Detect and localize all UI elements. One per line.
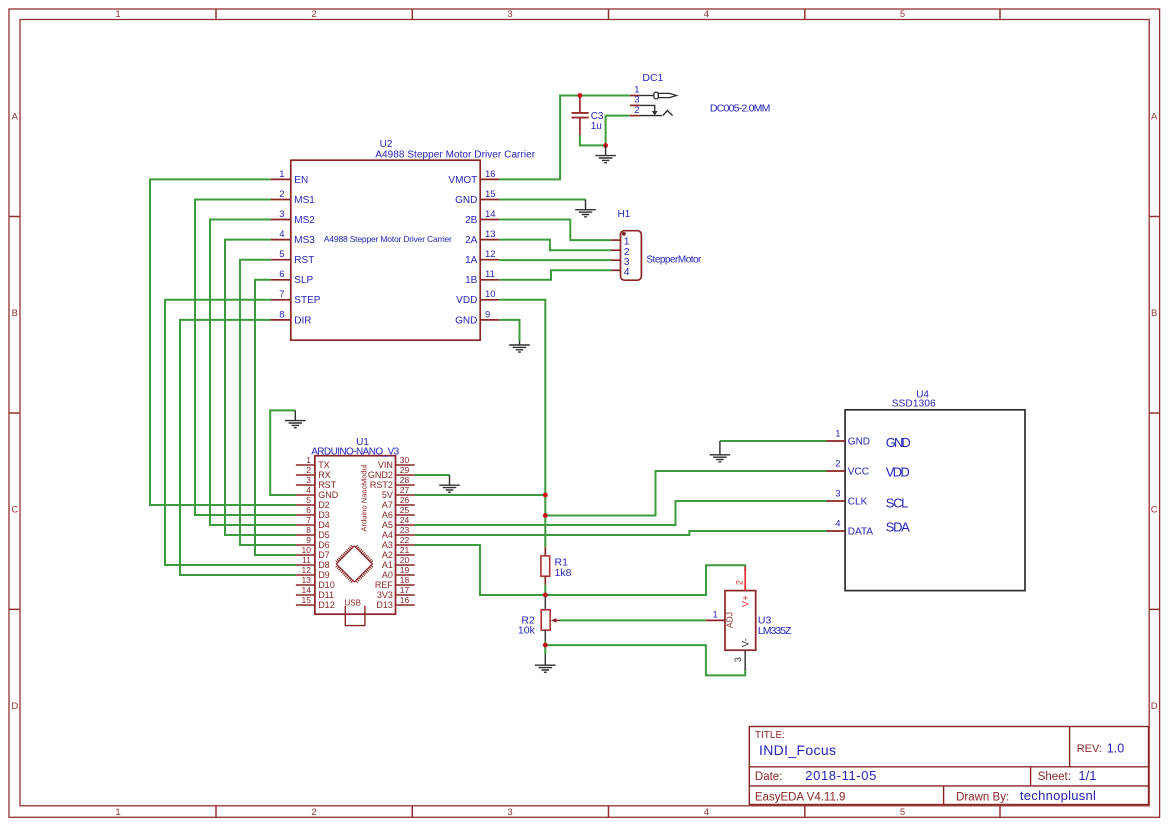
U2 pin 1 EN [271, 169, 308, 186]
U2 pin 14 2B [465, 209, 499, 226]
U1 pin 9 D6 [296, 535, 330, 550]
svg-text:Date:: Date: [755, 771, 783, 783]
svg-text:2018-11-05: 2018-11-05 [805, 768, 876, 783]
svg-text:SDA: SDA [886, 520, 910, 535]
U2 pin 15 GND [455, 189, 499, 206]
svg-text:4: 4 [306, 485, 311, 495]
display U4 SSD1306 box [845, 410, 1025, 591]
svg-text:3: 3 [306, 475, 311, 485]
U1 pin 24 A5 [382, 515, 415, 530]
svg-text:VCC: VCC [848, 467, 869, 478]
svg-text:GND2: GND2 [368, 470, 393, 480]
wire A4 to U4 DATA [415, 531, 827, 535]
svg-text:INDI_Focus: INDI_Focus [759, 742, 836, 758]
svg-text:Drawn By:: Drawn By: [956, 791, 1009, 803]
ground at U2 GND15 [575, 200, 596, 217]
svg-text:5V: 5V [382, 490, 393, 500]
svg-text:30: 30 [400, 455, 410, 465]
svg-text:9: 9 [485, 309, 490, 320]
U1 pin 8 D5 [296, 525, 330, 540]
U1 pin 17 3V3 [377, 585, 415, 600]
wire 2A to H1 pin2 [499, 240, 611, 251]
title block [749, 727, 1148, 805]
svg-text:2: 2 [311, 9, 316, 20]
svg-text:2: 2 [306, 465, 311, 475]
svg-text:D8: D8 [318, 560, 330, 570]
svg-text:16: 16 [400, 595, 410, 605]
wire node to U3 V- [545, 645, 745, 675]
wire VDD 5V net [499, 300, 545, 547]
wire U1 GND to ground [270, 410, 296, 495]
U2 pin 2 MS1 [271, 189, 315, 206]
wire SLP to D7 [255, 280, 296, 555]
svg-text:H1: H1 [618, 209, 631, 220]
svg-text:5: 5 [306, 495, 311, 505]
U2 pin 10 VDD [456, 289, 499, 306]
svg-text:A4: A4 [382, 530, 393, 540]
svg-text:D4: D4 [318, 520, 330, 530]
wire MS1 to D3 [195, 200, 296, 516]
U1 pin 5 D2 [296, 495, 330, 510]
svg-text:11: 11 [302, 555, 311, 565]
wire DC1 pin2 to C3 node [606, 116, 630, 146]
U1 USB connector [345, 606, 365, 626]
wire C3 bottom to node [580, 135, 606, 145]
resistor R1 [541, 547, 550, 584]
svg-text:C: C [11, 505, 18, 516]
svg-text:RST: RST [294, 255, 314, 266]
svg-text:4: 4 [704, 807, 709, 818]
svg-text:24: 24 [400, 515, 410, 525]
U1 pin 3 RST [296, 475, 337, 490]
svg-text:3: 3 [279, 209, 284, 220]
svg-text:RST2: RST2 [370, 480, 393, 490]
wire MS3 to D5 [225, 240, 296, 535]
IC U2 A4988 box [291, 160, 480, 340]
svg-text:ARDUINO-NANO_V3: ARDUINO-NANO_V3 [311, 446, 399, 457]
svg-text:5: 5 [279, 249, 284, 260]
svg-text:A6: A6 [382, 510, 393, 520]
svg-text:V-: V- [740, 638, 751, 647]
svg-text:13: 13 [302, 575, 312, 585]
U3 pin 2 V+ [735, 567, 752, 608]
svg-text:A4988 Stepper Motor Driver Car: A4988 Stepper Motor Driver Carrier [375, 150, 535, 161]
U1 pin 16 D13 [376, 595, 414, 610]
svg-text:VIN: VIN [378, 460, 393, 470]
svg-text:MS3: MS3 [294, 235, 315, 246]
svg-text:VDD: VDD [886, 464, 910, 479]
svg-text:26: 26 [400, 495, 410, 505]
svg-text:ADJ: ADJ [725, 612, 735, 628]
svg-text:27: 27 [400, 485, 410, 495]
svg-text:1B: 1B [465, 275, 478, 286]
svg-text:A4988 Stepper Motor Driver Car: A4988 Stepper Motor Driver Carrier [324, 234, 452, 244]
svg-text:19: 19 [400, 565, 410, 575]
U4 pin 1 GND [827, 429, 871, 448]
U1 pin 23 A4 [382, 525, 415, 540]
wire R1 bottom to node [544, 584, 546, 595]
junction VCC branch [543, 513, 548, 518]
svg-text:EN: EN [294, 175, 308, 186]
wire VMOT to DC1 pin1 [499, 96, 630, 180]
svg-text:2A: 2A [465, 235, 478, 246]
svg-text:1u: 1u [591, 121, 602, 132]
svg-text:U2: U2 [380, 139, 393, 150]
svg-text:13: 13 [485, 229, 496, 240]
svg-text:10: 10 [485, 289, 496, 300]
U1 pin 25 A6 [382, 505, 415, 520]
svg-text:A1: A1 [382, 560, 393, 570]
svg-text:D12: D12 [318, 600, 335, 610]
svg-text:28: 28 [400, 475, 410, 485]
H1 pin 2 [611, 246, 630, 258]
svg-text:VMOT: VMOT [448, 175, 477, 186]
U1 pin 18 REF [375, 575, 415, 590]
svg-text:1A: 1A [465, 255, 478, 266]
svg-text:Sheet:: Sheet: [1038, 771, 1071, 783]
svg-text:D2: D2 [318, 500, 330, 510]
svg-text:6: 6 [279, 269, 284, 280]
wire 1A to H1 pin3 [499, 259, 611, 261]
svg-text:12: 12 [485, 249, 496, 260]
svg-text:15: 15 [485, 189, 496, 200]
U1 pin 20 A1 [382, 555, 415, 570]
wire U1 GND2 to ground [415, 474, 450, 476]
connector H1 box [621, 231, 642, 281]
capacitor C3 [572, 97, 589, 135]
ground at C3/DC1 [595, 145, 616, 162]
wire node to U4 VCC [545, 471, 826, 516]
svg-text:14: 14 [485, 209, 496, 220]
U1 pin 11 D8 [296, 555, 330, 570]
svg-text:10: 10 [302, 545, 312, 555]
svg-text:DIR: DIR [294, 315, 311, 326]
U1 pin 27 5V [382, 485, 415, 500]
U1 pin 13 D10 [296, 575, 335, 590]
svg-text:D6: D6 [318, 540, 330, 550]
svg-text:REF: REF [375, 580, 394, 590]
svg-text:18: 18 [400, 575, 410, 585]
svg-text:GND: GND [886, 435, 911, 450]
svg-text:23: 23 [400, 525, 410, 535]
svg-text:A: A [12, 112, 19, 123]
svg-text:A7: A7 [382, 500, 393, 510]
DC1 pin 3 [630, 95, 658, 116]
svg-text:3: 3 [507, 9, 512, 20]
svg-text:29: 29 [400, 465, 410, 475]
svg-text:12: 12 [302, 565, 312, 575]
U1 pin 26 A7 [382, 495, 415, 510]
svg-text:9: 9 [306, 535, 311, 545]
svg-text:4: 4 [835, 519, 840, 530]
wire RST to D6 [240, 260, 296, 545]
U4 pin 4 DATA [827, 519, 874, 538]
svg-text:8: 8 [279, 309, 284, 320]
U1 chip diamond [336, 545, 373, 582]
svg-text:1: 1 [279, 169, 284, 180]
svg-text:7: 7 [306, 515, 311, 525]
svg-text:1: 1 [115, 9, 120, 20]
svg-text:20: 20 [400, 555, 410, 565]
wire A5 to U4 CLK [415, 501, 827, 525]
U2 pin 11 1B [465, 269, 499, 286]
svg-text:1: 1 [835, 429, 840, 440]
svg-text:3: 3 [733, 657, 743, 662]
U1 pin 22 A3 [382, 535, 415, 550]
svg-text:A2: A2 [382, 550, 393, 560]
svg-text:1.0: 1.0 [1107, 742, 1124, 756]
ground at U1 GND [285, 410, 306, 427]
svg-text:10k: 10k [518, 624, 536, 636]
svg-text:14: 14 [302, 585, 312, 595]
svg-text:A: A [1151, 112, 1158, 123]
U2 pin 7 STEP [271, 289, 321, 306]
U2 pin 3 MS2 [271, 209, 315, 226]
U1 pin 19 A0 [382, 565, 415, 580]
svg-text:2: 2 [279, 189, 284, 200]
U1 pin 1 TX [296, 455, 330, 470]
svg-text:USB: USB [345, 598, 361, 607]
svg-text:RX: RX [318, 470, 331, 480]
junction R2 bottom [543, 643, 548, 648]
U1 pin 10 D7 [296, 545, 330, 560]
svg-text:17: 17 [400, 585, 410, 595]
ground at U1 GND2 [439, 475, 460, 492]
svg-text:3: 3 [634, 95, 639, 106]
svg-text:GND: GND [455, 315, 477, 326]
svg-text:A5: A5 [382, 520, 393, 530]
svg-text:1: 1 [306, 455, 311, 465]
svg-text:1: 1 [713, 610, 718, 621]
H1 pin 4 [611, 266, 630, 278]
svg-text:3V3: 3V3 [377, 590, 393, 600]
svg-text:DATA: DATA [848, 527, 874, 538]
wire U2 GND15 to ground [499, 199, 585, 201]
svg-text:1k8: 1k8 [555, 567, 572, 579]
U1 pin 29 GND2 [368, 465, 415, 480]
svg-text:7: 7 [279, 289, 284, 300]
DC1 pin 2 [630, 105, 673, 116]
U2 pin 8 DIR [271, 309, 312, 326]
svg-text:D9: D9 [318, 570, 330, 580]
wire 1B to H1 pin4 [499, 270, 611, 280]
U1 pin 6 D3 [296, 505, 330, 520]
ground at U4 GND [710, 441, 731, 462]
svg-text:MS2: MS2 [294, 215, 315, 226]
H1 pin 3 [611, 256, 630, 268]
wire A3 to R1 and U3 V+ [415, 545, 746, 595]
U4 pin 3 CLK [827, 489, 868, 508]
svg-text:B: B [1151, 308, 1157, 319]
wire STEP to D8 [165, 300, 296, 565]
svg-text:D11: D11 [318, 590, 334, 600]
H1 pin1 marker dot [622, 232, 626, 236]
U1 pin 2 RX [296, 465, 331, 480]
ground at R2 bottom [535, 655, 556, 673]
wire R2 bottom node [544, 641, 546, 655]
svg-text:D10: D10 [318, 580, 335, 590]
wire R2 wiper to U3 ADJ [559, 619, 706, 621]
svg-text:16: 16 [485, 169, 496, 180]
wire MS2 to D4 [210, 220, 296, 526]
svg-text:2: 2 [311, 807, 316, 818]
svg-text:MS1: MS1 [294, 195, 315, 206]
svg-text:CLK: CLK [848, 497, 868, 508]
U1 pin 21 A2 [382, 545, 415, 560]
svg-text:StepperMotor: StepperMotor [646, 255, 702, 266]
svg-text:DC005-2.0MM: DC005-2.0MM [710, 103, 771, 115]
svg-text:11: 11 [485, 269, 495, 280]
junction 5V U1 [543, 493, 548, 498]
DC1 pin 1 [630, 84, 677, 98]
svg-text:1: 1 [115, 807, 120, 818]
U1 pin 7 D4 [296, 515, 330, 530]
svg-text:Arduino NanoModul: Arduino NanoModul [359, 464, 368, 531]
svg-text:SLP: SLP [294, 275, 313, 286]
svg-text:2: 2 [634, 105, 639, 116]
wire U4 GND1 [720, 440, 827, 442]
svg-text:2B: 2B [465, 215, 478, 226]
svg-text:GND: GND [848, 437, 870, 448]
svg-text:D: D [1151, 701, 1158, 712]
U1 pin 12 D9 [296, 565, 330, 580]
svg-text:DC1: DC1 [642, 72, 663, 84]
svg-text:8: 8 [306, 525, 311, 535]
U2 pin 6 SLP [271, 269, 314, 286]
svg-text:4: 4 [704, 9, 709, 20]
wire DIR to D9 [180, 320, 296, 575]
svg-text:D7: D7 [318, 550, 330, 560]
svg-text:B: B [12, 308, 18, 319]
U2 pin 16 VMOT [448, 169, 499, 186]
wire U2 GND9 to ground [499, 320, 519, 341]
U1 pin 28 RST2 [370, 475, 415, 490]
U3 pin 1 ADJ [706, 610, 735, 628]
ground at U2 GND9 [509, 341, 530, 352]
R2 wiper arrow [555, 619, 560, 621]
svg-text:GND: GND [318, 490, 339, 500]
svg-text:15: 15 [302, 595, 312, 605]
U2 pin 9 GND [455, 309, 499, 326]
U4 pin 2 VCC [827, 459, 869, 478]
svg-text:2: 2 [835, 459, 840, 470]
svg-text:GND: GND [455, 195, 477, 206]
U2 pin 13 2A [465, 229, 499, 246]
svg-text:C: C [1151, 505, 1158, 516]
wire EN to D2 [150, 179, 296, 505]
U2 pin 5 RST [271, 249, 314, 266]
svg-text:technoplusnl: technoplusnl [1020, 788, 1096, 803]
svg-text:LM335Z: LM335Z [758, 625, 792, 637]
U2 pin 4 MS3 [271, 229, 315, 246]
svg-text:VDD: VDD [456, 295, 477, 306]
svg-text:4: 4 [279, 229, 284, 240]
sensor U3 LM335Z box [725, 591, 756, 651]
svg-text:TX: TX [318, 460, 330, 470]
svg-text:4: 4 [624, 266, 630, 278]
title block texts [755, 730, 1124, 804]
wire U1 5V to node [415, 494, 546, 496]
U2 pin 12 1A [465, 249, 499, 266]
junction R1 bottom [543, 593, 548, 598]
svg-text:STEP: STEP [294, 295, 320, 306]
svg-text:RST: RST [318, 480, 337, 490]
svg-text:3: 3 [835, 489, 840, 500]
U1 pin 14 D11 [296, 585, 334, 600]
U3 pin 3 V- [733, 638, 751, 670]
potentiometer R2 [541, 597, 559, 641]
U1 pin 4 GND [296, 485, 339, 500]
svg-text:REV:: REV: [1077, 743, 1102, 755]
svg-text:A3: A3 [382, 540, 393, 550]
svg-text:2: 2 [735, 580, 745, 585]
svg-text:SSD1306: SSD1306 [892, 399, 936, 410]
svg-text:SCL: SCL [886, 496, 909, 511]
svg-text:D3: D3 [318, 510, 330, 520]
svg-text:EasyEDA V4.11.9: EasyEDA V4.11.9 [755, 791, 846, 803]
svg-text:D: D [11, 701, 18, 712]
U1 pin 30 VIN [378, 455, 415, 470]
junction C3 top [578, 93, 583, 98]
svg-text:21: 21 [400, 545, 410, 555]
svg-text:6: 6 [306, 505, 311, 515]
svg-text:V+: V+ [740, 595, 751, 607]
svg-text:A0: A0 [382, 570, 393, 580]
svg-text:22: 22 [400, 535, 410, 545]
junction C3/DC1 ground [603, 143, 608, 148]
svg-text:D13: D13 [376, 600, 393, 610]
svg-text:5: 5 [900, 807, 905, 818]
svg-text:25: 25 [400, 505, 410, 515]
H1 pin 1 [611, 236, 630, 248]
svg-text:5: 5 [900, 9, 905, 20]
svg-text:TITLE:: TITLE: [755, 730, 785, 741]
svg-text:3: 3 [507, 807, 512, 818]
IC U1 Arduino Nano box [315, 456, 396, 615]
svg-text:1/1: 1/1 [1078, 768, 1096, 783]
wire 2B to H1 pin1 [499, 220, 611, 241]
svg-text:D5: D5 [318, 530, 330, 540]
U1 pin 15 D12 [296, 595, 335, 610]
